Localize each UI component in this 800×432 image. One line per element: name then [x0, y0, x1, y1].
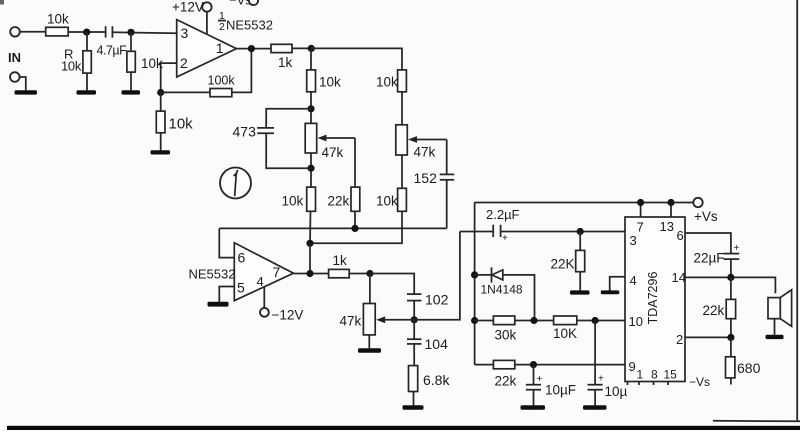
ground [15, 90, 38, 94]
label 1/2 NE5532 [218, 10, 273, 33]
svg-text:10K: 10K [553, 326, 577, 341]
svg-text:+: + [734, 243, 740, 254]
wire pin5 to ground [219, 287, 234, 303]
svg-text:7: 7 [637, 220, 644, 235]
input terminal bottom [10, 72, 20, 82]
pin 7 stub [640, 203, 642, 218]
svg-text:+: + [502, 233, 508, 244]
wire 30k row [475, 320, 494, 322]
wire node K to 102 cap [370, 274, 414, 294]
wire pin4 stub [263, 287, 265, 308]
ground [151, 150, 171, 154]
ground [77, 90, 97, 94]
svg-text:9: 9 [629, 359, 636, 374]
ground [570, 290, 590, 294]
wire +Vs rail [475, 202, 694, 204]
IC U3 TDA7296 body [625, 217, 685, 382]
svg-text:10k: 10k [141, 56, 163, 71]
node D junction [248, 45, 255, 52]
wire pin6 to 22uF [685, 233, 731, 253]
resistor 10k lower-left [282, 187, 316, 243]
svg-text:47k: 47k [340, 314, 362, 329]
svg-text:+Vs: +Vs [694, 209, 718, 224]
svg-text:+12V: +12V [172, 0, 204, 15]
svg-text:1N4148: 1N4148 [481, 283, 523, 297]
wire rail A to U2 pin6 [219, 228, 234, 257]
svg-text:22k: 22k [495, 374, 517, 389]
capacitor 10uF first [526, 365, 576, 406]
circled 1 marker [220, 168, 251, 199]
diode 1N4148 [475, 267, 535, 320]
node M junction [577, 228, 584, 235]
svg-text:6.8k: 6.8k [423, 372, 450, 388]
capacitor 10uF second [588, 321, 628, 406]
node A junction [83, 28, 90, 35]
svg-text:22µF: 22µF [694, 251, 725, 266]
node G junction [307, 165, 314, 172]
input terminal top [10, 27, 20, 37]
wire 30k to 10K [515, 320, 554, 322]
svg-text:4.7µF: 4.7µF [97, 44, 128, 58]
resistor 10k series input [46, 12, 69, 36]
svg-text:NE5532: NE5532 [189, 267, 236, 282]
svg-text:1k: 1k [333, 253, 348, 268]
wire 1k to node E [292, 47, 311, 49]
potentiometer 47k bottom [340, 232, 460, 335]
wire 1k to node K [349, 273, 370, 275]
wire 22k to IC pin9 [515, 364, 625, 366]
capacitor 152 [414, 140, 455, 229]
resistor 680 [726, 337, 761, 384]
node P junction [530, 317, 537, 324]
svg-text:8: 8 [651, 368, 658, 382]
ground [583, 405, 607, 410]
node T junction [667, 199, 674, 206]
resistor 6.8k [409, 366, 451, 406]
svg-text:4: 4 [257, 274, 264, 289]
node R junction [530, 361, 537, 368]
speaker LS1 [768, 290, 792, 335]
wire 2.2uF to IC pin3 [501, 231, 625, 233]
svg-text:10k: 10k [61, 59, 82, 74]
svg-text:14: 14 [672, 270, 686, 285]
wire pot bottom [310, 153, 312, 187]
resistor 10K [553, 316, 577, 341]
ground [766, 335, 784, 339]
node S junction [637, 199, 644, 206]
ground [601, 290, 620, 294]
svg-text:5: 5 [237, 280, 245, 296]
svg-text:102: 102 [425, 292, 449, 308]
wire 2.2uF row [460, 231, 493, 233]
wire standby chain vertical [474, 202, 476, 364]
svg-text:2.2µF: 2.2µF [486, 207, 520, 222]
svg-text:3: 3 [181, 25, 189, 41]
svg-text:4: 4 [630, 273, 637, 288]
bottom page border [7, 426, 800, 430]
node V junction [727, 334, 734, 341]
svg-text:2: 2 [219, 21, 225, 33]
svg-text:1: 1 [637, 368, 644, 382]
wire U2 output [294, 273, 329, 275]
node H junction (rail B) [306, 240, 313, 247]
svg-text:680: 680 [737, 360, 761, 376]
svg-text:−Vs: −Vs [689, 375, 710, 389]
node O junction 30k [471, 317, 478, 324]
wire rail A [219, 227, 446, 229]
potentiometer 47k left [305, 123, 355, 160]
wire pot bottom to ground [368, 335, 370, 348]
svg-text:10: 10 [629, 314, 643, 329]
resistor 30k [493, 316, 516, 343]
node Q junction [592, 317, 599, 324]
svg-text:152: 152 [414, 170, 438, 186]
svg-text:1k: 1k [278, 55, 293, 70]
svg-text:6: 6 [238, 249, 246, 265]
+12V terminal [172, 0, 212, 15]
node I junction 22k bottom [351, 225, 358, 232]
svg-text:13: 13 [660, 219, 674, 234]
wire node E to right column [311, 48, 402, 70]
resistor 1k [271, 44, 293, 70]
svg-text:10µF: 10µF [545, 383, 576, 398]
resistor 1k second [329, 253, 350, 278]
wire right page border [796, 0, 798, 421]
svg-text:100k: 100k [208, 74, 236, 88]
wire wiper to 22k [354, 138, 356, 187]
wire input to R1 [20, 31, 46, 33]
svg-text:TDA7296: TDA7296 [646, 272, 660, 325]
svg-text:10k: 10k [282, 194, 304, 209]
svg-text:473: 473 [233, 124, 257, 140]
node E junction [308, 45, 315, 52]
svg-text:10k: 10k [376, 75, 398, 90]
resistor 10k pin2 to ground [156, 93, 193, 151]
svg-text:10k: 10k [47, 12, 69, 27]
resistor 10k after cap to ground [127, 32, 163, 90]
svg-text:10k: 10k [319, 75, 341, 90]
svg-text:6: 6 [677, 228, 684, 243]
svg-text:2: 2 [180, 55, 188, 71]
svg-text:10k: 10k [376, 194, 398, 209]
capacitor 102 [407, 292, 449, 320]
wire R1 to cap [68, 31, 105, 33]
svg-text:+: + [537, 374, 543, 385]
+Vs terminal [693, 198, 718, 224]
node U junction [727, 274, 734, 281]
pin 13 stub [670, 203, 672, 218]
wire bottom-right rule [713, 420, 800, 423]
svg-text:IN: IN [8, 50, 21, 65]
svg-text:30k: 30k [495, 328, 517, 343]
wire 22k row [475, 364, 494, 366]
ground [403, 405, 424, 410]
resistor 100k feedback [161, 49, 252, 97]
op-amp U1 NE5532 triangle [177, 20, 237, 77]
resistor 22k [328, 187, 360, 228]
op-amp U2 NE5532 triangle [234, 243, 293, 301]
svg-text:3: 3 [630, 233, 637, 248]
svg-text:47k: 47k [322, 145, 344, 160]
node C junction [157, 89, 164, 96]
wire 10K to IC pin10 [577, 320, 625, 322]
wire cap to op-amp pin3 [112, 31, 176, 34]
corner smudge [0, 0, 4, 5]
pin stubs bottom [628, 382, 669, 386]
capacitor 104 [407, 320, 448, 366]
svg-text:15: 15 [664, 368, 678, 382]
svg-text:NE5532: NE5532 [226, 18, 273, 33]
svg-text:47k: 47k [414, 145, 436, 160]
svg-text:7: 7 [273, 264, 281, 280]
-Vs terminal top (clipped) [229, 0, 258, 7]
wire bottom terminal to ground [20, 77, 26, 90]
resistor 10k lower-right [310, 188, 406, 243]
svg-text:22k: 22k [328, 194, 350, 209]
wire +12V to op-amp U1 [206, 12, 208, 35]
svg-text:104: 104 [425, 336, 449, 352]
svg-text:10µ: 10µ [605, 384, 628, 399]
svg-text:22K: 22K [551, 257, 575, 272]
resistor 22k right [703, 277, 736, 337]
svg-text:1: 1 [216, 40, 224, 56]
wire pin2 to feedback node [161, 63, 177, 92]
capacitor 2.2uF [486, 207, 520, 244]
ground [122, 90, 141, 94]
node B junction [127, 29, 134, 36]
ground [521, 405, 546, 410]
svg-text:2: 2 [676, 332, 683, 347]
wire pin14 row to speaker [685, 277, 775, 293]
resistor 10k mid-right column [376, 70, 406, 125]
ground [358, 348, 381, 353]
resistor 22k bottom [493, 360, 516, 388]
node L junction [411, 316, 418, 323]
capacitor 473 bridge [233, 109, 312, 168]
resistor R 10k to ground [61, 32, 91, 90]
svg-text:10k: 10k [169, 116, 194, 133]
-12V terminal [260, 308, 303, 323]
node N junction diode [471, 271, 478, 278]
wire node H down to U2 output node [309, 243, 311, 273]
svg-text:+: + [598, 374, 604, 385]
node K junction [366, 270, 373, 277]
node J junction U2 out [306, 270, 313, 277]
potentiometer 47k right [396, 125, 447, 160]
wire pin4 to ground [610, 277, 625, 291]
resistor 10k mid-left column [307, 48, 341, 123]
resistor 22K to ground [551, 232, 585, 291]
capacitor 22uF [694, 243, 740, 277]
wire pin2 row [685, 336, 731, 338]
node F junction [307, 105, 314, 112]
ground [208, 302, 229, 307]
svg-text:22k: 22k [703, 303, 725, 318]
capacitor 4.7uF [97, 26, 128, 57]
wire U1 output [236, 48, 271, 50]
wire pot to 10k [401, 155, 403, 188]
svg-text:−12V: −12V [272, 308, 304, 323]
